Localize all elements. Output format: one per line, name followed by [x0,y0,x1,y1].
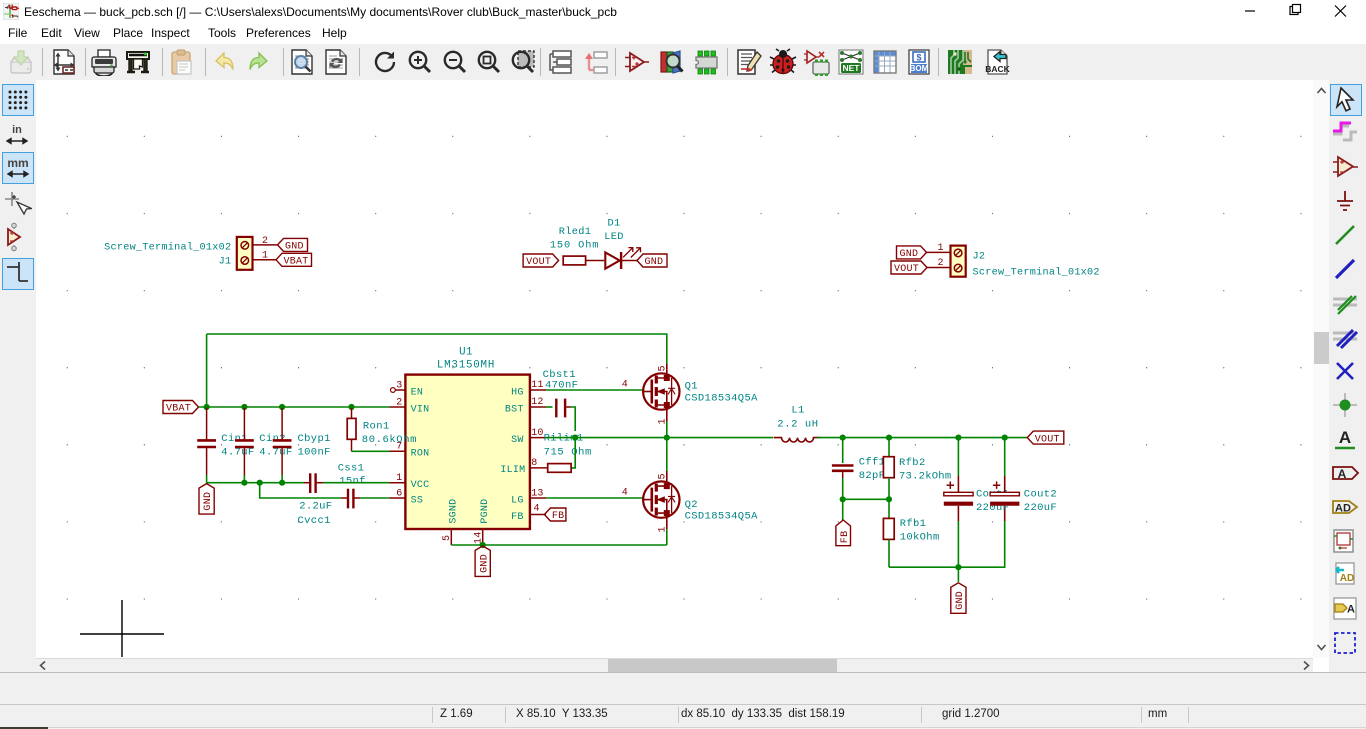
wire SW rail [546,437,773,439]
power symbol GND (input caps) [199,484,214,514]
wire SW to Rilim1 [571,438,575,468]
svg-text:J1: J1 [219,257,232,268]
U1 pin 6 SS [389,497,405,499]
svg-text:GND: GND [955,591,966,610]
svg-text:5: 5 [442,535,453,541]
svg-text:11: 11 [531,380,543,391]
resistor Rfb2 73.2kOhm [883,438,951,500]
svg-text:GND: GND [479,554,490,573]
U1 pin 2 VIN [389,406,405,408]
svg-text:Css1: Css1 [338,462,365,474]
svg-text:BACK: BACK [985,64,1010,74]
wire GND bottom rail [207,482,304,484]
svg-text:4: 4 [534,504,540,515]
svg-text:LG: LG [511,495,524,506]
svg-text:LED: LED [604,231,623,243]
capacitor Css1 15nf [304,462,366,493]
svg-text:2: 2 [396,397,402,408]
decorative grid (not labelled individually) [67,136,1302,599]
svg-text:4: 4 [622,487,628,498]
svg-text:12: 12 [531,397,543,408]
global label VOUT (J2 pin 2) [891,261,927,274]
U1 pin 5 SGND [450,529,452,545]
svg-text:U1: U1 [459,347,473,359]
J2 pin 2 [927,267,951,269]
svg-text:FB: FB [840,531,851,544]
svg-text:Screw_Terminal_01x02: Screw_Terminal_01x02 [973,266,1100,278]
svg-text:13: 13 [531,488,543,499]
svg-text:SS: SS [411,495,424,506]
junction VOUT/Cout2 [1002,435,1008,441]
junction VOUT/Cff1 [840,435,846,441]
junction SW/Cbst1 [572,435,578,441]
U1 pin 14 PGND [482,529,484,545]
global label VOUT (to Rled1) [523,254,559,267]
svg-text:VOUT: VOUT [526,257,551,268]
wire Cbst1 to SW node [571,407,576,431]
capacitor Cbst1 470nF [543,369,579,417]
svg-text:Cff1: Cff1 [859,457,886,469]
U1 pin 7 RON [389,450,405,452]
svg-text:220uF: 220uF [1024,502,1057,514]
svg-text:mm: mm [7,156,28,170]
svg-text:VBAT: VBAT [284,257,309,268]
wire Q1 source to SW [666,422,668,438]
svg-text:Cbyp1: Cbyp1 [298,433,331,445]
wire SS branch [260,483,341,498]
wire SW to Q2 drain [666,438,668,471]
svg-text:VOUT: VOUT [1035,434,1060,445]
svg-text:10: 10 [531,428,543,439]
svg-text:Rfb2: Rfb2 [899,457,926,469]
wire VBAT vertical to top rail [206,334,208,407]
U1 pin 10 SW [530,437,546,439]
U1 pin 13 LG [530,497,546,499]
svg-text:Ron1: Ron1 [363,421,390,433]
wire D1 to GND label [622,260,639,262]
global label VBAT (input rail) [163,401,199,414]
svg-text:Cvcc1: Cvcc1 [298,515,331,527]
svg-text:SGND: SGND [449,499,460,524]
svg-text:LM3150MH: LM3150MH [437,360,495,372]
power symbol GND (U1 ground) [475,546,490,577]
J2 pin 1 [927,251,951,253]
svg-text:1: 1 [938,243,944,254]
global label VOUT (output) [1027,431,1064,444]
junction GND/Cin2 [241,480,247,486]
svg-text:PGND: PGND [480,499,491,524]
svg-text:82pF: 82pF [859,470,886,482]
U1 pin 8 ILIM [530,467,548,469]
inductor L1 2.2 uH [774,405,821,443]
wire Rled1 to D1 [586,260,605,262]
junction VBAT/Cbyp1 [279,404,285,410]
resistor Rled1 150 Ohm [550,226,600,265]
transistor Q2 CSD18534Q5A [622,471,758,533]
global label GND (J1 pin 2) [278,238,308,251]
wire cap bottoms to GND rail [207,475,283,483]
junction GND/SS branch [257,480,263,486]
junction output GND [955,564,961,570]
svg-text:8: 8 [531,458,537,469]
svg-text:Q1: Q1 [685,381,698,393]
J1 pin 1 [253,259,277,261]
sheet corner marker [80,600,164,657]
global label GND (J2 pin 1) [897,246,927,259]
U1 pin 3 EN [395,389,405,391]
svg-text:2: 2 [938,258,944,269]
svg-text:15nf: 15nf [339,476,366,488]
wire top rail VBAT to Q1 drain [207,334,667,364]
svg-text:1: 1 [396,473,402,484]
IC U1 LM3150MH buck controller [405,347,530,530]
junction SW/Q1-Q2 [664,435,670,441]
svg-text:VCC: VCC [411,480,430,491]
wire Css1 to VCC pin [323,482,389,484]
wire HG to Q1 gate [546,389,643,391]
junction PGND [480,542,486,548]
svg-text:RON: RON [411,449,430,460]
LED D1 [604,217,640,269]
capacitor Cff1 82pF [832,438,885,483]
resistor Rilim1 [548,464,571,473]
junction VBAT/Cin1 [204,404,210,410]
svg-text:CSD18534Q5A: CSD18534Q5A [685,393,759,405]
junction GND/Cbyp1 [279,480,285,486]
capacitor Cin2 4.7uF [235,408,293,475]
U1 pin 11 HG [530,389,546,391]
svg-text:100nF: 100nF [298,447,331,459]
svg-text:BOM: BOM [910,64,929,73]
svg-text:VOUT: VOUT [894,264,919,275]
svg-text:in: in [12,124,22,136]
svg-text:715 Ohm: 715 Ohm [544,446,592,458]
svg-text:GND: GND [645,257,664,268]
svg-text:VIN: VIN [411,404,430,415]
global label GND (D1 cathode) [637,254,667,267]
resistor Ron1 80.6kOhm [347,408,389,452]
svg-text:Rfb1: Rfb1 [900,518,927,530]
svg-text:6: 6 [396,488,402,499]
svg-text:NET: NET [843,63,861,73]
svg-text:Q2: Q2 [685,499,698,511]
svg-text:D1: D1 [608,217,621,229]
svg-text:HG: HG [511,387,524,398]
junction VBAT/Cin2 [241,404,247,410]
wire Ron1 to RON pin [352,450,390,452]
svg-text:ILIM: ILIM [500,465,525,476]
global label VBAT (J1 pin 1) [276,253,312,266]
junction VBAT/Ron1 [348,404,354,410]
svg-text:J2: J2 [973,251,986,262]
svg-text:Rled1: Rled1 [559,226,591,238]
wire output ground rail [889,521,1005,567]
J1 pin 2 [253,244,278,246]
power symbol GND (output) [951,583,966,614]
svg-text:$: $ [916,53,921,63]
svg-text:L1: L1 [791,405,804,417]
junction VOUT/Cout1 [955,435,961,441]
svg-text:FB: FB [552,511,565,522]
wire SGND/PGND ground rail [451,544,667,546]
junction FB/Cff1 [840,496,846,502]
wire VBAT rail [199,406,390,408]
svg-text:CSD18534Q5A: CSD18534Q5A [685,511,759,523]
U1 pin 12 BST [530,406,546,408]
capacitor Cout2 220uF polarized [990,438,1057,515]
svg-text:A: A [1347,604,1355,616]
svg-text:7: 7 [396,442,402,453]
svg-text:GND: GND [900,249,919,260]
connector J1 Screw_Terminal_01x02 [104,237,252,270]
global label FB (U1 pin 4) [544,508,566,521]
wire L1 to VOUT [817,437,1028,439]
junction VOUT/Rfb2 [886,435,892,441]
wire FB node [843,498,889,500]
connector J2 Screw_Terminal_01x02 [951,246,1100,279]
svg-text:Cout2: Cout2 [1024,489,1057,501]
svg-text:1: 1 [262,251,268,262]
capacitor Cin1 4.7uF [197,408,254,475]
svg-text:2: 2 [262,236,268,247]
svg-text:A: A [1339,428,1351,447]
svg-text:EN: EN [411,387,424,398]
resistor Rfb1 10kOhm [883,499,939,567]
wire to output GND symbol [957,567,959,582]
svg-text:A: A [1338,467,1347,481]
transistor Q1 CSD18534Q5A [622,364,758,425]
svg-text:AD: AD [1340,573,1354,584]
capacitor Cbyp1 100nF [273,408,331,475]
svg-text:80.6kOhm: 80.6kOhm [362,434,417,446]
svg-text:AD: AD [1335,503,1351,515]
capacitor Cvcc1 2.2uF [298,489,361,527]
U1 pin 1 VCC [389,482,405,484]
wire to FB label [842,499,844,520]
svg-text:150 Ohm: 150 Ohm [550,240,600,252]
svg-text:SW: SW [511,435,524,446]
U1 pin 4 FB [530,514,546,516]
svg-text:10kOhm: 10kOhm [900,532,940,544]
wire LG to Q2 gate [546,497,643,499]
svg-text:4: 4 [622,379,628,390]
global label FB (divider) [836,520,851,546]
svg-text:VBAT: VBAT [166,404,191,415]
svg-text:BST: BST [505,404,524,415]
svg-text:FB: FB [511,512,524,523]
svg-text:Screw_Terminal_01x02: Screw_Terminal_01x02 [104,242,231,254]
svg-text:73.2kOhm: 73.2kOhm [899,470,951,482]
junction FB/Rfb2-Rfb1 [886,496,892,502]
svg-text:GND: GND [285,242,304,253]
svg-text:3: 3 [396,380,402,391]
svg-text:2.2uF: 2.2uF [299,501,332,513]
wire Q2 source to ground rail [666,529,668,545]
svg-text:2.2 uH: 2.2 uH [777,419,818,431]
capacitor Cout1 220uF polarized [944,438,973,568]
wire Cvcc1 to SS pin [360,497,389,499]
svg-text:GND: GND [203,492,214,511]
